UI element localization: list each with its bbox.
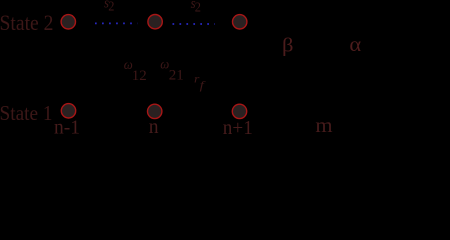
svg-text:2: 2 bbox=[108, 0, 114, 15]
svg-text:n: n bbox=[149, 116, 159, 138]
svg-text:State 1: State 1 bbox=[0, 101, 53, 125]
svg-text:m: m bbox=[315, 115, 333, 137]
svg-text:State 2: State 2 bbox=[0, 10, 54, 35]
svg-text:n-1: n-1 bbox=[54, 117, 80, 139]
svg-text:2: 2 bbox=[195, 1, 201, 16]
svg-text:β: β bbox=[282, 35, 294, 57]
svg-text:12: 12 bbox=[132, 68, 147, 84]
svg-text:α: α bbox=[349, 34, 361, 56]
svg-text:21: 21 bbox=[169, 68, 184, 84]
svg-text:n+1: n+1 bbox=[223, 117, 253, 139]
